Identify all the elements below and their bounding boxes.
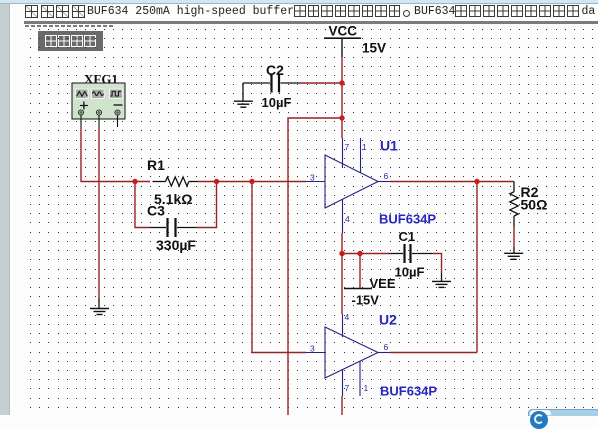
resistor R2 50Ohm load xyxy=(510,182,547,228)
svg-text:4: 4 xyxy=(345,214,350,224)
XFG1 terminal stems xyxy=(81,115,118,128)
svg-text:R1: R1 xyxy=(147,157,165,173)
wire VCC rail to left vertical rail xyxy=(288,118,342,415)
wire VCC rail down to U1 pin 7 xyxy=(341,57,343,138)
svg-text:C1: C1 xyxy=(399,229,416,244)
wire C2 to VCC rail xyxy=(300,82,342,84)
svg-text:BUF634P: BUF634P xyxy=(379,212,436,227)
capacitor C1 10uF xyxy=(389,229,433,280)
junction VEE stub xyxy=(357,251,362,256)
svg-text:15V: 15V xyxy=(362,41,386,56)
wire C1 right to ground xyxy=(433,254,442,282)
ground left of C2 xyxy=(234,83,253,107)
capacitor C3 330uF xyxy=(147,203,196,254)
svg-text:C2: C2 xyxy=(266,62,284,78)
capacitor C2 10uF xyxy=(243,62,300,110)
svg-text:1: 1 xyxy=(362,142,367,152)
svg-text:U1: U1 xyxy=(380,138,398,154)
wire R1 right lead to node B xyxy=(198,181,217,183)
junction node C xyxy=(249,179,254,184)
wire VEE rail down to U2 pin 4 xyxy=(341,254,343,315)
power symbol VEE -15V xyxy=(344,254,396,308)
junction VEE rail / U1 pin4 xyxy=(339,251,344,256)
svg-text:6: 6 xyxy=(384,342,389,352)
svg-text:VCC: VCC xyxy=(329,24,358,39)
svg-text:330µF: 330µF xyxy=(156,237,196,253)
svg-text:7: 7 xyxy=(345,383,350,393)
ground below R2 xyxy=(504,253,523,259)
wire U1 pin 4 down to VEE rail xyxy=(341,233,343,254)
wire R2 bottom to ground xyxy=(513,227,515,253)
svg-text:-15V: -15V xyxy=(352,293,380,308)
svg-text:6: 6 xyxy=(384,171,389,181)
op-amp buffer U1 BUF634P xyxy=(306,138,436,234)
junction node A xyxy=(132,179,137,184)
ground right of C1 xyxy=(432,281,451,287)
junction VCC rail split xyxy=(339,115,344,120)
svg-text:4: 4 xyxy=(345,312,350,322)
wire XFG1 common terminal down to ground xyxy=(98,128,100,309)
resistor R1 5.1kOhm xyxy=(147,157,198,207)
junction node B xyxy=(214,179,219,184)
capacitor C3 330uF parallel branch wire xyxy=(135,182,150,228)
svg-text:10µF: 10µF xyxy=(262,95,292,110)
svg-text:7: 7 xyxy=(345,142,350,152)
wire U2 pin 7 down off-screen xyxy=(341,396,343,415)
wire node B to U1 input xyxy=(217,181,307,183)
svg-text:10µF: 10µF xyxy=(395,265,425,280)
op-amp buffer U2 BUF634P xyxy=(306,312,437,399)
ground below XFG1 xyxy=(90,309,109,315)
power symbol VCC 15V xyxy=(324,24,386,58)
wire U2 output up to output node xyxy=(390,352,477,354)
svg-text:3: 3 xyxy=(310,173,315,183)
junction VCC/C2 xyxy=(339,80,344,85)
function generator XFG1 xyxy=(72,72,125,120)
svg-text:C3: C3 xyxy=(147,203,165,219)
wire output node down to U2 output xyxy=(476,182,478,353)
svg-text:1: 1 xyxy=(364,383,369,393)
svg-text:50Ω: 50Ω xyxy=(521,197,548,213)
svg-text:VEE: VEE xyxy=(370,276,396,291)
svg-text:U2: U2 xyxy=(379,312,397,328)
wire from XFG1 + output down and right to node A xyxy=(81,128,150,182)
wire C3 right lead up to node B xyxy=(196,182,217,228)
junction output node xyxy=(474,179,479,184)
svg-text:BUF634P: BUF634P xyxy=(380,384,437,399)
svg-text:3: 3 xyxy=(310,344,315,354)
wire node C down to U2 input xyxy=(252,182,306,353)
wire U1 output to R2 xyxy=(390,181,514,183)
wire VEE rail horizontal xyxy=(342,253,389,255)
